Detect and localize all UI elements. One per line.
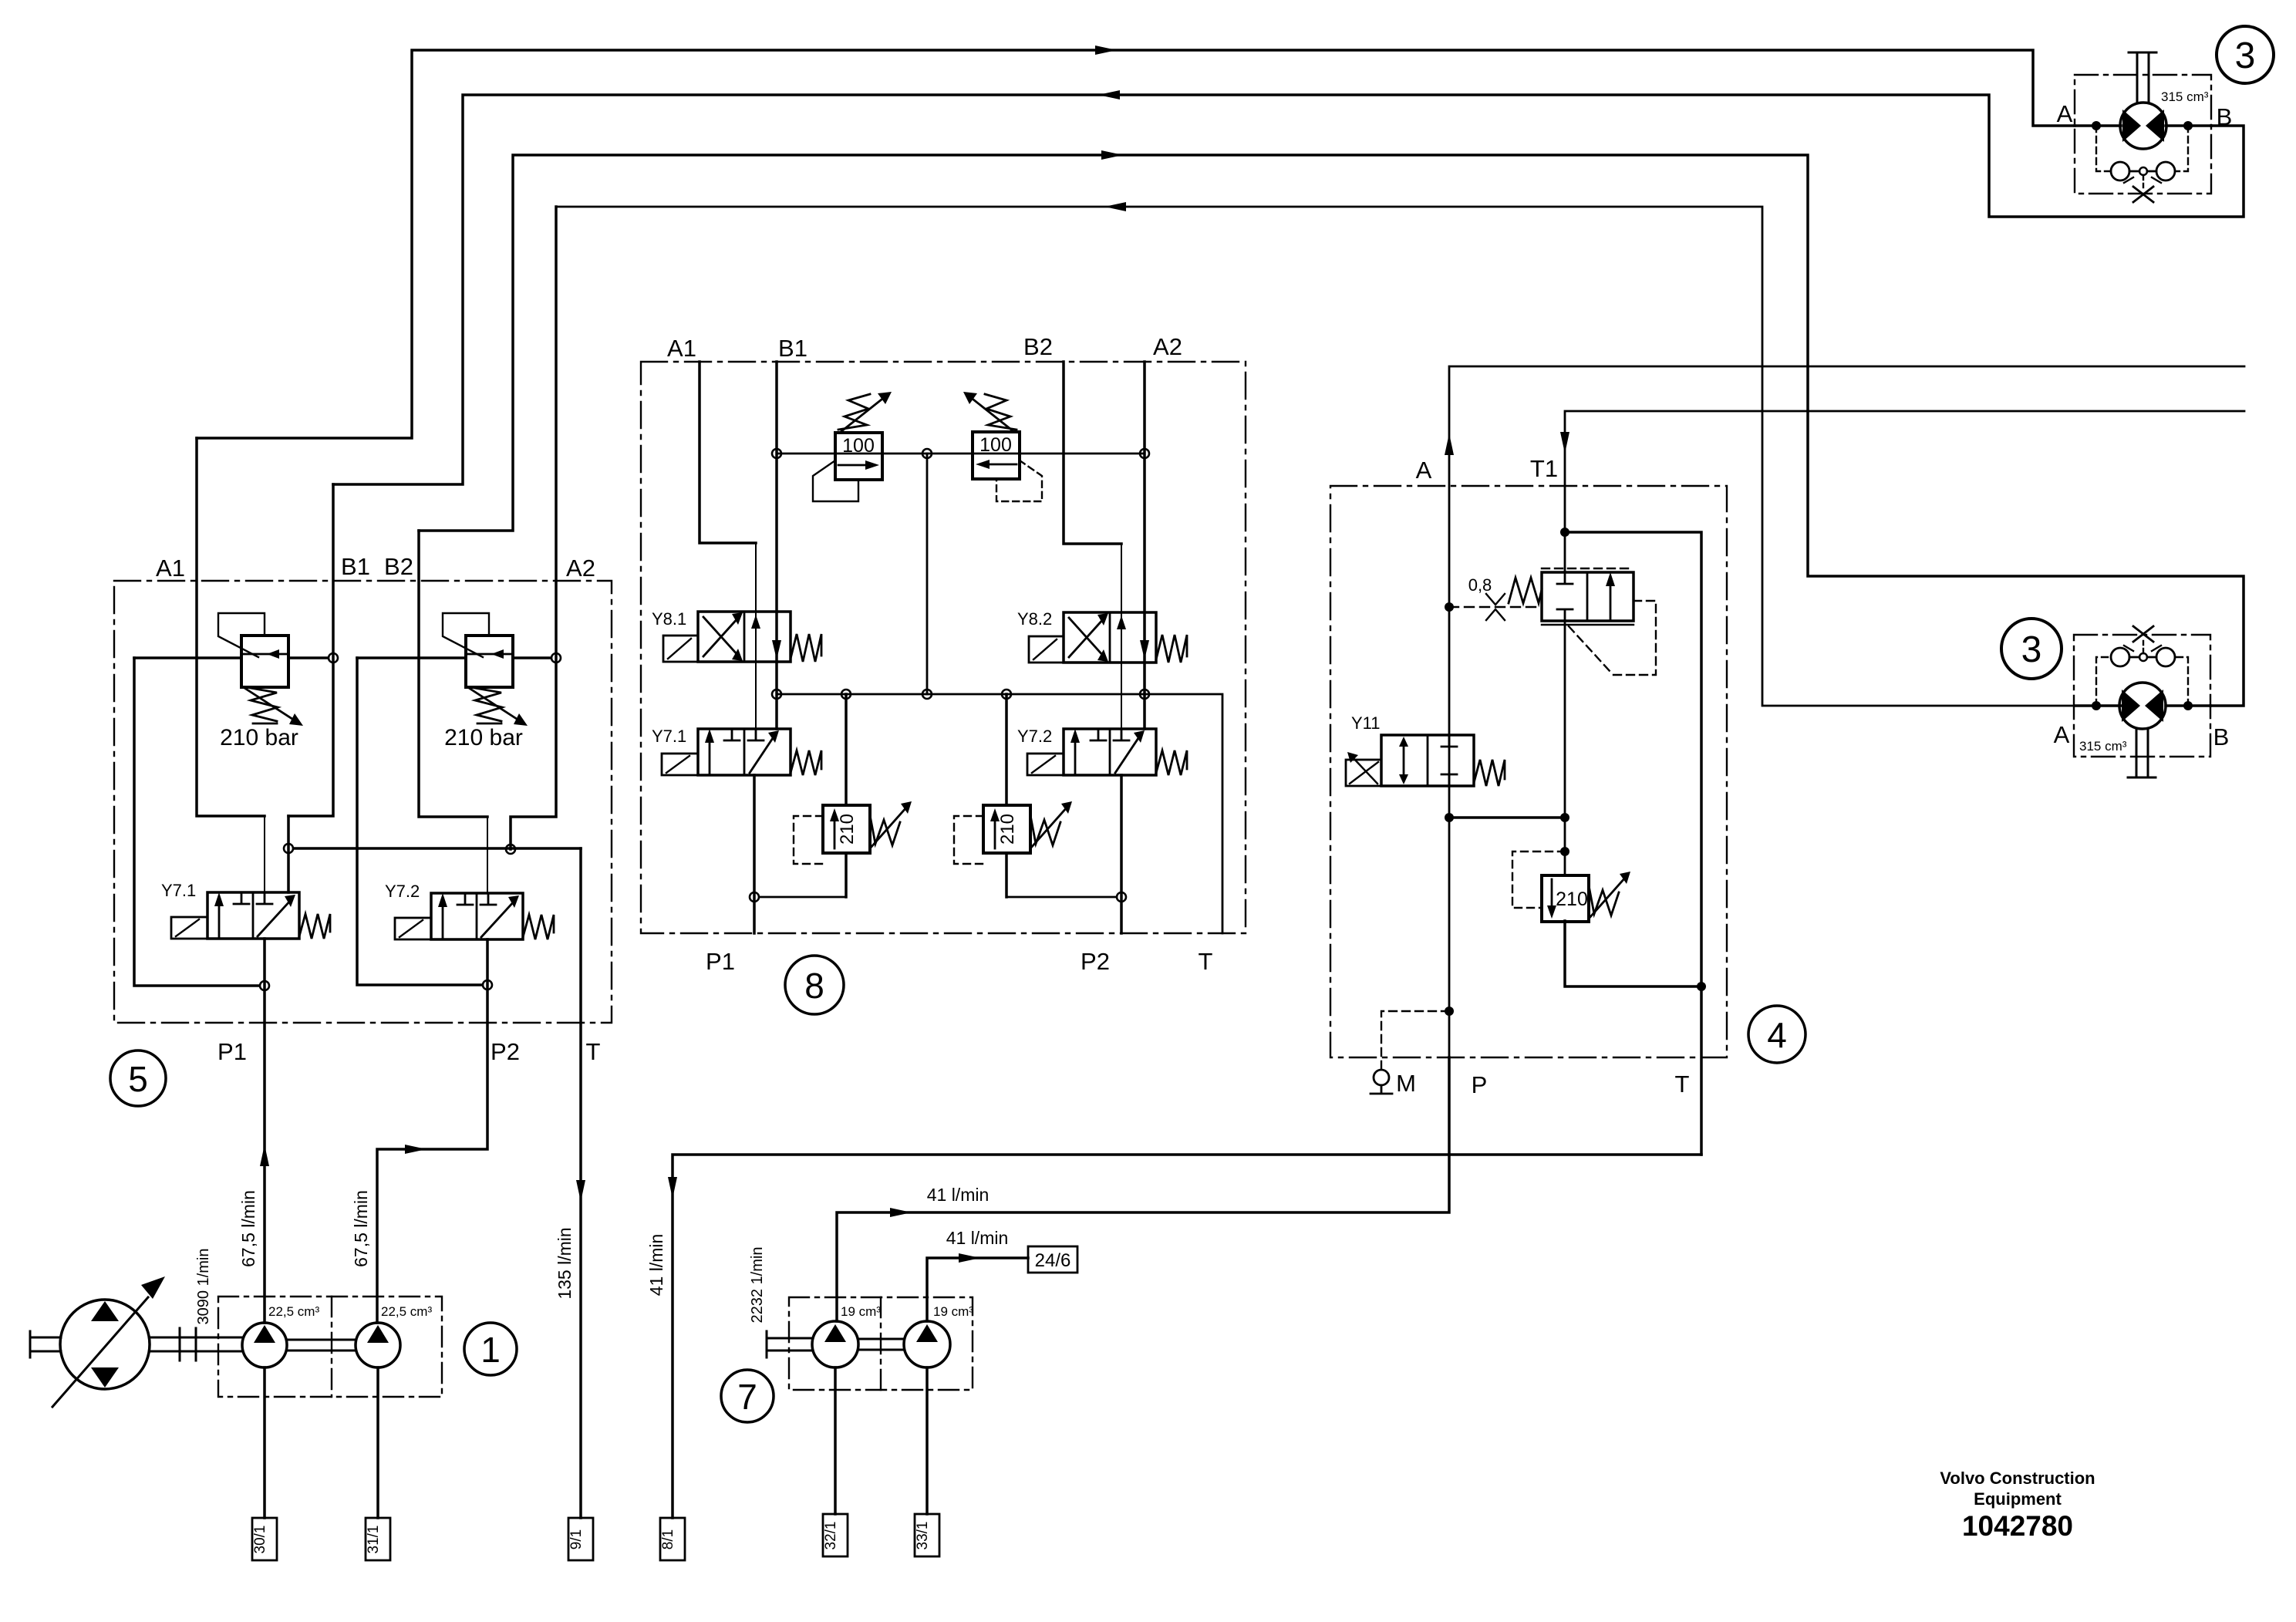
wire T loop right side [1565,532,1701,1155]
callout circle 5 [110,1050,166,1106]
wire A to T1 cross connector [1449,816,1565,819]
callout circle 3 lower [2001,619,2062,679]
svg-text:A: A [2057,100,2073,127]
node B1 (section 8) [775,362,778,729]
svg-text:Y8.1: Y8.1 [652,609,686,629]
svg-text:67,5 l/min: 67,5 l/min [238,1190,258,1267]
arrow right on P supply line [890,1208,912,1217]
wire pump 7a to port 32/1 [834,1367,837,1514]
svg-text:Equipment: Equipment [1974,1489,2062,1509]
wire relief drain left [760,896,846,899]
node A2 (section 5 port line) [511,207,556,849]
junction dot motor 3 lower port A [2092,701,2101,710]
callout circle 8 [785,956,844,1014]
svg-text:22,5 cm³: 22,5 cm³ [381,1304,432,1319]
svg-text:5: 5 [128,1059,148,1099]
svg-text:0,8: 0,8 [1468,575,1492,595]
pressure reducing valve 0,8 [1509,568,1656,675]
arrow on line 1 [1095,46,1117,55]
pump block 1 dash-dot enclosure [218,1297,442,1397]
svg-text:A1: A1 [156,555,185,582]
motor 3 upper circle [2120,103,2166,149]
junction dot connector left [1445,813,1454,822]
port box 32/1 [823,1514,848,1556]
relief valve RV1 210 bar [134,613,328,726]
wire centre drop to mid rail [926,454,929,694]
svg-text:8: 8 [804,966,824,1006]
wire A1 channel through Y8.1 to Y7.1 [755,543,757,729]
arrow on A2 inside Y8.2 [1140,640,1149,659]
svg-text:19 cm³: 19 cm³ [841,1304,881,1319]
svg-text:31/1: 31/1 [366,1526,382,1554]
junction ring mid rail centre [922,690,932,699]
svg-text:P2: P2 [491,1038,520,1065]
svg-text:2232 1/min: 2232 1/min [749,1247,766,1324]
port box 31/1 [366,1518,390,1560]
arrow on line 4 [1104,202,1126,211]
junction dot connector right [1560,813,1569,822]
svg-text:1: 1 [480,1330,501,1370]
shaft between pump 1a and 1b [287,1340,356,1351]
motor 3 upper shaft [2129,52,2156,103]
junction dot 210 pilot [1560,847,1569,856]
svg-text:4: 4 [1767,1015,1787,1055]
pump 7b outlet triangle [916,1324,938,1342]
pump 7a outlet triangle [824,1324,846,1342]
junction ring mid rail RV210-right [1002,690,1011,699]
relief valve 100 left [813,392,892,501]
port box 8/1 [660,1518,685,1560]
svg-text:210: 210 [837,814,858,845]
svg-text:41 l/min: 41 l/min [646,1234,666,1297]
svg-text:P: P [1472,1071,1488,1098]
measuring port M dashed line [1381,1011,1449,1071]
port box 33/1 [915,1514,939,1556]
svg-text:9/1: 9/1 [568,1529,585,1549]
wire B2 to motor-2 port B (line 3) [419,155,2244,706]
wire A2 to motor-2 port A (line 4) [556,207,2075,706]
arrow down on 8/1 line [668,1177,677,1199]
solenoid valve Y7.1 (section 8) [662,729,821,775]
pump 7 drive shaft [767,1331,904,1357]
motor 3 upper displacement triangles [2122,110,2141,142]
svg-text:A2: A2 [1153,333,1182,360]
plugged port X motor 3 lower [2133,626,2153,642]
svg-text:41 l/min: 41 l/min [946,1228,1009,1248]
svg-text:Y7.1: Y7.1 [652,727,686,746]
relief valve 210 left (section 8) [794,694,912,897]
wire pump 1a to port 30/1 [263,1367,266,1518]
node A1 (section 8) [700,362,756,543]
svg-text:24/6: 24/6 [1035,1250,1071,1271]
motor 3 lower shaft [2128,729,2156,777]
wire pump 7b to port 33/1 [925,1367,929,1514]
relief valve RV1 feedback line from P1 [134,658,259,986]
svg-text:A2: A2 [566,555,595,582]
junction dot T1 upper [1560,528,1569,537]
flushing check valves motor 3 upper [2096,126,2188,187]
solenoid valve Y8.2 [1029,612,1187,663]
wire valve Y7.2 closed-port drop [487,817,488,893]
junction ring P1/relief drain left [750,892,759,902]
wire P1 from valve to pump 1 [263,939,266,1323]
pump 7b circle [904,1321,950,1367]
junction ring mid rail RV210-left [841,690,851,699]
svg-text:Y7.2: Y7.2 [385,882,420,901]
relief valve 210 right (section 8) [954,694,1072,897]
wire B2 channel through Y8.2 to Y7.2 [1121,544,1122,729]
svg-text:A: A [1416,457,1432,484]
node B2 (section 5 port line) [419,531,487,817]
relief valve RV2 feedback line from P2 [357,658,482,985]
wire P2 drop (section 8) [1120,775,1123,933]
flushing check valves motor 3 lower [2096,641,2188,706]
junction dot motor 3 upper port A [2092,121,2101,130]
svg-text:33/1: 33/1 [915,1522,931,1550]
svg-text:B1: B1 [778,335,807,362]
valve block 8 dash-dot enclosure [641,362,1246,933]
svg-text:19 cm³: 19 cm³ [933,1304,973,1319]
node B2 (section 8) [1064,362,1121,544]
junction ring rail centre [922,449,932,458]
svg-text:T: T [586,1038,601,1065]
svg-text:210 bar: 210 bar [444,725,523,750]
drive shaft left with end [30,1331,61,1357]
arrow on P2 line [405,1145,426,1154]
callout circle 4 [1748,1006,1805,1063]
callout circle 3 upper [2217,26,2274,83]
wire B1 to motor-1 port B (line 2) [333,95,2244,484]
arrow on B1 inside Y8.1 [772,640,781,659]
svg-text:8/1: 8/1 [660,1529,676,1549]
motor 3 upper A-B through line [2075,124,2211,127]
svg-text:135 l/min: 135 l/min [555,1227,575,1299]
svg-text:B2: B2 [1023,333,1053,360]
svg-text:M: M [1396,1070,1416,1097]
wire T line [579,848,582,1518]
junction ring mid rail on A2 [1140,690,1149,699]
wire mid rail to T [777,694,1222,933]
wire valve Y7.1 pilot drop [287,816,290,892]
hydraulic motor 3 (upper) dash-dot enclosure [2075,75,2211,194]
pump block 7 dash-dot enclosure [789,1297,973,1390]
relief valve 100 right [963,392,1042,501]
svg-text:7: 7 [737,1377,757,1417]
junction dot 0,8 pilot on A line [1445,602,1454,612]
junction ring P2/relief drain right [1117,892,1126,902]
svg-text:P2: P2 [1081,948,1110,975]
junction ring P2 feedback [483,980,492,990]
junction ring on Y7.1 pilot line [284,844,293,853]
svg-text:100: 100 [979,434,1012,456]
svg-text:B2: B2 [384,553,413,580]
svg-text:Volvo Construction: Volvo Construction [1940,1469,2095,1488]
wire pump 1b to port 31/1 [376,1367,379,1518]
callout circle 7 [721,1370,774,1422]
solenoid valve Y8.1 [663,612,821,662]
variable displacement pump (drive) [52,1276,165,1407]
junction dot motor 3 lower port B [2183,701,2193,710]
pump 1b outlet triangle [367,1325,389,1343]
node A2 (section 8) [1143,362,1146,729]
wire P1 drop (section 8) [753,775,756,933]
arrow on T line [576,1180,585,1202]
svg-text:210: 210 [1556,889,1588,910]
arrow on 24/6 line [959,1253,980,1263]
wire A/P line of section 4 [1449,366,2244,1057]
svg-text:1042780: 1042780 [1962,1510,2073,1542]
solenoid valve Y7.2 (section 5) [395,893,554,939]
wire valve Y7.1 closed-port drop [264,816,265,892]
valve block 5 dash-dot enclosure [114,581,612,1023]
svg-text:P1: P1 [706,948,735,975]
measuring port M symbol [1371,1070,1392,1094]
svg-text:A1: A1 [667,335,696,362]
valve block 4 dash-dot enclosure [1330,486,1727,1057]
arrow on P1 line [260,1145,269,1166]
svg-text:P1: P1 [217,1038,247,1065]
motor 3 lower A-B through line [2075,704,2210,707]
arrow on line 2 [1098,90,1120,99]
svg-text:Y11: Y11 [1351,713,1381,733]
wire A1 to motor-1 port A (line 1) [197,50,2075,438]
node B1 (section 5 port line) [288,484,333,816]
svg-text:3: 3 [2021,629,2042,670]
svg-text:100: 100 [842,435,875,457]
svg-text:22,5 cm³: 22,5 cm³ [268,1304,319,1319]
solenoid valve Y7.2 (section 8) [1027,729,1187,775]
plugged port X motor 3 upper [2133,187,2153,202]
drive shaft coupling to pump block 1 [150,1328,242,1361]
relief valve RV2 210 bar [357,613,551,726]
junction ring rail right on A2 [1140,449,1149,458]
svg-text:A: A [2054,721,2070,748]
arrow up on A line [1445,433,1454,455]
svg-text:210: 210 [997,814,1018,845]
svg-text:Y7.1: Y7.1 [161,881,196,900]
svg-text:Y8.2: Y8.2 [1017,609,1052,629]
svg-text:B: B [2213,723,2230,750]
svg-text:315 cm³: 315 cm³ [2079,739,2127,754]
junction dot motor 3 upper port B [2183,121,2193,130]
svg-text:30/1: 30/1 [252,1526,268,1554]
pump 1a circle [242,1323,287,1367]
wire pilot line to T [294,847,581,850]
pump 7a circle [812,1321,858,1367]
motor 3 lower displacement triangles [2122,690,2140,722]
motor 3 lower circle [2119,683,2166,729]
svg-text:210 bar: 210 bar [220,725,298,750]
port box 9/1 [568,1518,593,1560]
pump 1a outlet triangle [254,1325,275,1343]
arrow on line 3 [1101,150,1123,160]
svg-text:T: T [1675,1071,1690,1098]
junction dot T drain corner [1697,982,1706,991]
solenoid valve Y7.1 (section 5) [171,892,330,939]
svg-text:3: 3 [2235,35,2256,76]
svg-text:32/1: 32/1 [823,1522,839,1550]
relief valve 210 (section 4) [1512,851,1630,922]
junction ring on Y7.2 pilot line [506,845,515,854]
svg-text:T1: T1 [1530,455,1558,482]
svg-text:B1: B1 [341,553,370,580]
port box 30/1 [252,1518,277,1560]
wire relief drain right [1006,896,1116,899]
node A1 (section 5 port line) [197,438,265,816]
svg-text:67,5 l/min: 67,5 l/min [351,1190,371,1267]
wire secondary relief rail [777,453,1145,455]
junction ring mid rail on B1 [772,690,781,699]
pump 1b circle [356,1323,400,1367]
arrow down on T1 line [1560,432,1569,454]
wire P2 from valve to pump 2 [377,939,487,1323]
svg-text:315 cm³: 315 cm³ [2161,89,2209,104]
svg-text:Y7.2: Y7.2 [1017,727,1052,746]
fitting box 24/6 [1028,1246,1077,1273]
wire T1 line of section 4 [1565,411,2244,875]
junction ring P1 feedback [260,981,269,990]
junction ring RV2 outlet on A2 [551,653,561,663]
wire pump 7b to fitting 24/6 [927,1258,1028,1321]
solenoid valve Y11 [1346,735,1505,786]
junction dot M pilot on P line [1445,1007,1454,1016]
svg-text:41 l/min: 41 l/min [927,1185,990,1205]
junction ring RV1 outlet on B1 [329,653,338,663]
svg-text:T: T [1199,948,1213,975]
callout circle 1 [464,1323,517,1375]
hydraulic motor 3 (lower) dash-dot enclosure [2074,635,2210,757]
svg-text:3090 1/min: 3090 1/min [195,1249,212,1325]
svg-text:B: B [2217,103,2233,130]
orifice symbol on 0,8 pilot [1449,594,1542,620]
wire tank line to port 8/1 [673,1155,1701,1518]
junction ring rail left on B1 [772,449,781,458]
